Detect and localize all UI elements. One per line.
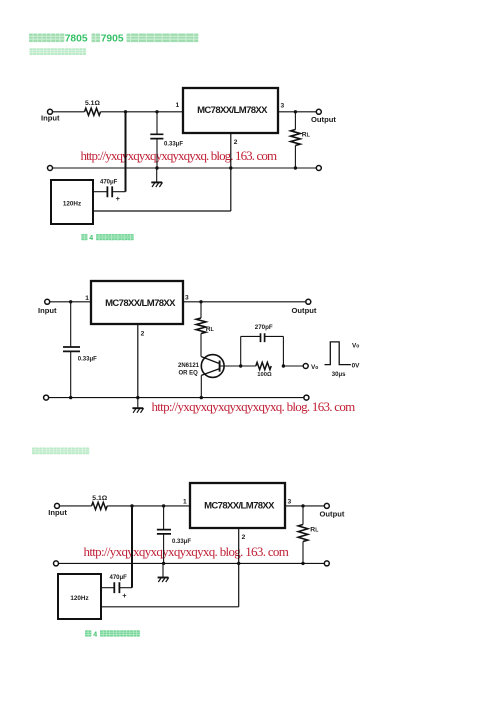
junction bypass cap branch (circuit3) [162, 504, 165, 507]
node Vo terminal [303, 364, 308, 369]
junction filter branch (circuit3) [130, 504, 133, 507]
wire pin3 to output (circuit3) [285, 505, 324, 507]
wire bypass cap top lead (circuit3) [163, 506, 165, 529]
wire RL to transistor collector [200, 334, 202, 357]
junction rail/cap (circuit2) [69, 396, 72, 399]
svg-text:1: 1 [176, 102, 180, 109]
junction rail/pin2 (circuit2) [136, 396, 139, 399]
junction at bypass cap branch [155, 110, 158, 113]
wire RL top lead (circuit3) [302, 506, 304, 525]
svg-text:1: 1 [85, 295, 89, 302]
caption1 图 [81, 234, 87, 240]
node Output1 terminal [316, 109, 321, 114]
node Input2 terminal [45, 299, 50, 304]
block 120Hz source (circuit1) [51, 180, 93, 224]
regulator U3 MC78XX/LM78XX [190, 483, 285, 528]
wire RL top lead [294, 112, 296, 130]
junction rail/RL (circuit3) [301, 562, 304, 565]
svg-text:5.1Ω: 5.1Ω [92, 495, 107, 502]
block 120Hz source (circuit3) [58, 574, 101, 619]
load resistor RL (circuit2) [196, 318, 206, 333]
wire 120Hz block to pin2 riser (circuit3) [101, 606, 239, 608]
ground (circuit2) [132, 408, 143, 413]
junction at filter branch [124, 110, 127, 113]
wire resistor to regulator pin1 (circuit3) [107, 505, 190, 507]
wire RC right riser [282, 336, 284, 366]
ground (circuit3) [158, 578, 169, 583]
resistor 5.1ohm (circuit3) [92, 502, 108, 509]
wire bypass cap top lead [156, 112, 158, 134]
transistor Q1 2N6121 [201, 355, 224, 378]
waveform pulse [325, 342, 351, 365]
node Input1 terminal [48, 109, 53, 114]
node rail-right terminal (circuit3) [324, 561, 329, 566]
svg-text:Output: Output [320, 510, 345, 519]
wire bypass cap bottom lead [156, 139, 158, 168]
svg-text:Output: Output [292, 306, 317, 315]
junction RL top (circuit2) [199, 300, 202, 303]
ground rail (circuit2) [49, 397, 304, 399]
svg-text:0.33μF: 0.33μF [164, 141, 183, 147]
svg-text:7805: 7805 [65, 33, 88, 44]
capacitor 270pF [261, 333, 265, 342]
wire ground stub (circuit1) [156, 168, 158, 182]
junction rail/cap (circuit1) [155, 166, 158, 169]
svg-text:2: 2 [234, 139, 238, 146]
wire input to regulator pin1 [50, 301, 91, 303]
junction at RL top [294, 110, 297, 113]
svg-text:0V: 0V [352, 362, 361, 369]
regulator U1 MC78XX/LM78XX [183, 88, 278, 133]
svg-text:MC78XX/LM78XX: MC78XX/LM78XX [197, 105, 268, 116]
wire thick branch down (circuit3) [131, 506, 133, 588]
junction input cap branch [69, 300, 72, 303]
junction rail/emitter (circuit2) [200, 396, 203, 399]
wire bypass cap bottom lead (circuit3) [163, 534, 165, 564]
svg-text:RL: RL [206, 326, 215, 333]
resistor 5.1ohm [85, 108, 101, 115]
wire base to RC network [220, 365, 256, 367]
svg-text:RL: RL [302, 132, 311, 139]
ground rail (circuit3) [59, 562, 325, 564]
capacitor 0.33uF (circuit1) [150, 134, 163, 138]
wire input to resistor [53, 111, 85, 113]
wire 120Hz block to pin2 riser [93, 210, 231, 212]
svg-text:0.33μF: 0.33μF [172, 539, 191, 545]
capacitor 0.33uF (circuit2) [63, 347, 80, 351]
wire resistor to regulator pin1 [101, 111, 184, 113]
wire RC top left segment [241, 335, 261, 337]
svg-text:Input: Input [48, 508, 67, 517]
svg-text:4: 4 [93, 631, 97, 638]
wire RL top lead (circuit2) [200, 302, 202, 318]
junction RL top (circuit3) [301, 504, 304, 507]
wire RC top right segment [265, 335, 284, 337]
junction rail/cap (circuit3) [162, 562, 165, 565]
wire network to Vo [283, 365, 303, 367]
capacitor 470uF (circuit1) [107, 186, 112, 197]
svg-text:7905: 7905 [101, 33, 124, 44]
svg-text:270pF: 270pF [255, 324, 273, 331]
svg-text:MC78XX/LM78XX: MC78XX/LM78XX [105, 298, 176, 309]
svg-text:Vo: Vo [311, 364, 318, 371]
svg-text:RL: RL [310, 527, 319, 534]
wire input cap bottom lead (circuit2) [70, 351, 72, 397]
node Output3 terminal [324, 503, 329, 508]
regulator U2 MC78XX/LM78XX [91, 281, 183, 324]
svg-text:4: 4 [89, 235, 93, 242]
wire 120Hz block to cap470 [93, 191, 107, 193]
node Input3 terminal [55, 503, 60, 508]
wire RC left riser [240, 336, 242, 366]
wire RL bottom lead (circuit3) [302, 542, 304, 564]
wire ground stub (circuit2) [137, 398, 139, 409]
wire cap470 right plate to branch [112, 191, 125, 193]
svg-text:1: 1 [183, 498, 187, 505]
svg-text:Output: Output [311, 115, 336, 124]
junction base network right [282, 364, 285, 367]
svg-text:+: + [116, 194, 121, 203]
section text 外接功率管扩流电路 [32, 448, 89, 455]
node rail-right terminal (circuit2) [304, 395, 309, 400]
junction rail/pin2 (circuit3) [237, 562, 240, 565]
node rail-left terminal (circuit3) [54, 561, 59, 566]
ground rail (circuit1) [53, 167, 317, 169]
load resistor RL (circuit3) [298, 525, 308, 542]
svg-text:http://yxqyxqyxqyxqyxqyxq. blo: http://yxqyxqyxqyxqyxqyxq. blog. 163. co… [81, 148, 277, 163]
ground (circuit1) [151, 182, 162, 187]
wire 120Hz block to cap470 (circuit3) [101, 587, 114, 589]
svg-text:2N6121: 2N6121 [178, 363, 200, 369]
svg-text:30μs: 30μs [332, 372, 346, 378]
svg-text:120Hz: 120Hz [63, 201, 81, 208]
title text 和 [92, 34, 101, 43]
wire pin3 to output [278, 111, 316, 113]
wire pin2 riser (circuit3) [238, 528, 240, 607]
wire cap470 right plate to branch (circuit3) [120, 587, 132, 589]
wire pin3 to output (circuit2) [183, 301, 306, 303]
svg-text:100Ω: 100Ω [257, 372, 272, 378]
resistor 100ohm [256, 362, 271, 369]
caption3 图 [85, 630, 91, 636]
svg-text:0.33μF: 0.33μF [78, 356, 97, 362]
caption3 text 纹波抑制电路 [100, 630, 140, 636]
caption1 text 纹波抑制电路 [96, 234, 134, 240]
wire RL bottom lead [294, 146, 296, 169]
svg-text:3: 3 [281, 102, 285, 109]
svg-text:http://yxqyxqyxqyxqyxqyxq. blo: http://yxqyxqyxqyxqyxqyxq. blog. 163. co… [152, 399, 356, 414]
svg-text:470μF: 470μF [100, 179, 118, 185]
svg-text:OR EQ: OR EQ [179, 370, 199, 376]
capacitor 470uF (circuit3) [114, 582, 119, 593]
svg-text:MC78XX/LM78XX: MC78XX/LM78XX [204, 500, 275, 511]
wire input cap top lead (circuit2) [70, 302, 72, 347]
svg-text:Input: Input [41, 114, 60, 123]
wire thick branch down from junction [125, 112, 127, 192]
section text 无负载时的固定输出 [30, 48, 87, 55]
wire transistor emitter to rail [200, 375, 202, 397]
svg-text:5.1Ω: 5.1Ω [85, 100, 100, 107]
title text 稳压原理及典型电路 [127, 34, 199, 43]
title text 三端稳压 [29, 34, 64, 43]
load resistor RL (circuit1) [291, 130, 301, 146]
junction rail/pin2 (circuit1) [229, 166, 232, 169]
junction rail/RL (circuit1) [294, 166, 297, 169]
svg-text:2: 2 [141, 331, 145, 338]
wire pin2 riser (circuit2) [137, 324, 139, 398]
svg-text:+: + [122, 591, 127, 600]
svg-text:Input: Input [38, 306, 57, 315]
wire pin2 riser [230, 133, 232, 211]
wire ground stub (circuit3) [162, 563, 164, 577]
svg-text:3: 3 [288, 498, 292, 505]
svg-text:2: 2 [242, 534, 246, 541]
svg-text:470μF: 470μF [110, 575, 128, 581]
node rail-left terminal (circuit1) [48, 166, 53, 171]
svg-text:120Hz: 120Hz [70, 595, 88, 602]
svg-text:3: 3 [185, 294, 189, 301]
node rail-right terminal (circuit1) [316, 166, 321, 171]
capacitor 0.33uF (circuit3) [157, 530, 171, 534]
svg-text:http://yxqyxqyxqyxqyxqyxq. blo: http://yxqyxqyxqyxqyxqyxq. blog. 163. co… [84, 544, 289, 559]
node rail-left terminal (circuit2) [44, 395, 49, 400]
junction base network left [239, 364, 242, 367]
node Output2 terminal [306, 299, 311, 304]
svg-text:Vo: Vo [352, 343, 359, 350]
wire input to resistor (circuit3) [60, 505, 92, 507]
